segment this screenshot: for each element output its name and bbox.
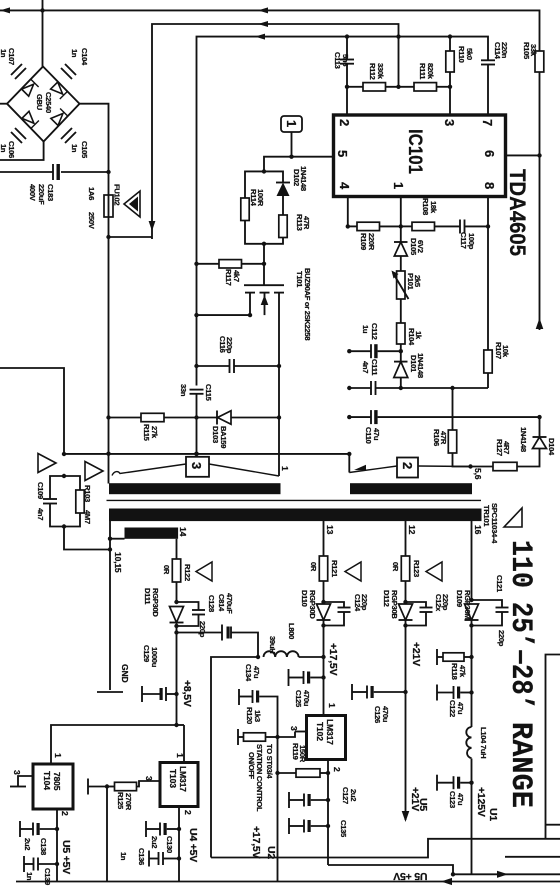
svg-text:R121: R121 [330,560,339,578]
+125V U1 label [475,787,499,821]
svg-text:L800: L800 [287,623,296,639]
svg-text:5: 5 [335,150,350,157]
svg-text:TO ST03/4: TO ST03/4 [265,744,274,779]
diode D111 RGP30D [143,588,184,696]
gate node wire down [262,244,266,285]
svg-text:C135: C135 [339,820,348,838]
capacitor C130 2u2 [146,821,179,853]
svg-text:13: 13 [325,525,335,535]
svg-text:2: 2 [60,811,70,816]
svg-text:1k3: 1k3 [253,710,262,722]
svg-text:1n: 1n [0,49,8,58]
warning triangle fuse [124,191,140,217]
capacitor C113 5n6 [333,37,354,115]
diode D102 1N4148 [264,166,308,215]
capacitor C116 220p [197,336,282,373]
warning triangle R123 [426,562,442,581]
svg-text:2: 2 [183,810,193,815]
svg-text:7805: 7805 [52,772,62,791]
svg-text:C127: C127 [341,787,350,804]
svg-text:C110: C110 [364,427,373,444]
svg-text:100R: 100R [256,189,265,207]
station control line and text [247,737,278,882]
warning triangle C109 [38,454,56,473]
svg-text:+17,5V: +17,5V [327,643,339,676]
capacitor C138 2u2 [20,821,57,855]
svg-text:470u: 470u [381,706,390,723]
transformer core bar primary left [109,483,281,494]
svg-text:C112: C112 [370,323,379,340]
svg-text:0R: 0R [391,562,400,572]
svg-text:2: 2 [332,767,342,772]
svg-text:1u: 1u [361,325,370,334]
svg-text:T101: T101 [295,271,304,288]
svg-text:47u: 47u [456,702,465,715]
bridge rectifier GR101 GBU C2540 [0,0,109,172]
svg-text:1: 1 [284,120,299,127]
svg-text:C183: C183 [46,184,55,201]
svg-text:C138: C138 [39,838,48,855]
svg-text:2u2: 2u2 [349,789,358,801]
svg-text:220p: 220p [198,621,207,638]
pin 12 wire [406,521,418,556]
svg-text:470u: 470u [302,690,311,707]
capacitor C123 47u [437,775,472,808]
svg-text:220p: 220p [360,594,369,611]
resistor R105 33k [522,42,544,330]
capacitor C109 4n7 [36,474,66,527]
resistor R106 47R [432,388,471,467]
svg-text:C117: C117 [459,232,468,249]
svg-text:2: 2 [337,119,352,126]
node junctions top [40,8,452,39]
+125V exit wire with arrow [453,871,560,878]
pin 4 wire / R109 220R [346,197,401,251]
svg-text:SPC11034-4: SPC11034-4 [490,503,499,544]
regulator T103 LM317 [137,725,199,831]
svg-text:ON/OFF: ON/OFF [247,752,256,780]
transformer core bar secondary [109,509,482,522]
svg-text:C139: C139 [43,868,52,885]
label TR101 SPC11034-4 [482,503,499,544]
svg-text:D111: D111 [143,588,152,605]
svg-text:110: 110 [503,540,537,588]
bottom bus staircase from L800 line [211,655,560,858]
big label 110 25 - 28 RANGE [503,540,537,808]
svg-text:33k: 33k [529,44,538,57]
warning triangle R122 [196,562,212,581]
capacitor C129 1000u [142,645,177,702]
diode D101 1N4148 [394,351,425,390]
svg-text:1n: 1n [0,144,8,153]
svg-text:2u2: 2u2 [23,838,32,850]
T104 output down / C139 1n [24,829,72,885]
svg-text:U5 +5V: U5 +5V [60,840,72,874]
svg-text:47u: 47u [252,666,261,679]
svg-text:LM317: LM317 [178,766,188,792]
svg-text:1n: 1n [119,852,128,861]
IC101 box [334,115,506,197]
resistor R125 270R [88,779,137,811]
svg-text:C128: C128 [207,595,216,612]
capacitor C110 47u [347,410,542,444]
bridge diode top-right [51,82,63,94]
svg-text:C113: C113 [333,52,342,69]
svg-text:1: 1 [391,182,406,189]
svg-text:IC101: IC101 [404,129,425,174]
svg-text:C105: C105 [80,141,89,159]
svg-text:C111: C111 [370,359,379,376]
resistor R104 1k [397,323,423,353]
svg-text:C814: C814 [217,594,226,612]
T102 output line down [326,773,330,865]
resistor R123 0R [391,556,421,602]
svg-text:47R: 47R [439,431,448,445]
svg-text:6V2: 6V2 [416,240,425,253]
capacitor C126 470u [352,684,406,723]
capacitor C134 47u [239,664,280,739]
svg-text:D103: D103 [211,426,220,443]
bridge diode top-left [22,84,34,96]
svg-text:14: 14 [178,527,188,537]
svg-text:47k: 47k [458,665,467,678]
transistor T101 BUZ90AF or 2SK2258 [235,268,312,476]
svg-text:+21V: +21V [410,642,422,666]
T103 output down / C136 1n [119,826,277,882]
svg-text:TDA4605: TDA4605 [505,169,530,256]
wire +8.5V feed to regulators [51,723,184,764]
svg-text:TR101: TR101 [482,505,491,527]
source wire to sense line [194,313,235,317]
bridge diode bottom-left [22,111,34,123]
svg-text:1N4148: 1N4148 [519,427,528,452]
svg-text:27k: 27k [150,426,159,439]
svg-text:16: 16 [473,525,483,535]
svg-text:L104 7uH: L104 7uH [479,727,488,758]
resistor R121 0R [309,556,339,602]
svg-text:4k7: 4k7 [232,270,241,282]
wire top rail 1 [0,7,540,51]
resistor R110 5k0 [446,37,474,115]
svg-text:0R: 0R [309,562,318,572]
svg-text:R103: R103 [83,485,92,502]
svg-text:C129: C129 [142,645,151,662]
svg-text:220n: 220n [500,42,509,59]
resistor R115 27k [109,413,197,441]
svg-text:220p: 220p [225,337,234,354]
capacitor C127 2u2 [289,787,358,808]
capacitor C128 220p [177,595,217,638]
resistor R113 47R [262,214,311,246]
bottom bus U5 +5V [16,870,560,885]
resistor R117 4k7 [194,260,264,286]
capacitor C112 1u [347,323,401,358]
svg-text:47u: 47u [372,428,381,441]
svg-text:C130: C130 [165,836,174,853]
capacitor C122 47u [437,685,472,718]
svg-text:RGP30D: RGP30D [308,590,317,619]
svg-text:8: 8 [482,182,497,189]
zener D105 6V2 [394,226,425,271]
svg-text:R117: R117 [224,269,233,286]
svg-text:C121: C121 [495,575,504,593]
svg-text:1N4148: 1N4148 [416,353,425,378]
resistor R120 1k3 [238,707,278,745]
svg-text:400V: 400V [28,184,37,202]
svg-text:D104: D104 [547,438,556,456]
inductor L800 39uH [211,623,326,858]
svg-text:220R: 220R [367,233,376,251]
svg-text:4n7: 4n7 [36,508,45,520]
svg-text:1: 1 [280,466,290,471]
svg-text:10,15: 10,15 [113,552,123,573]
svg-text:D112: D112 [382,590,391,607]
svg-text:47u: 47u [456,793,465,806]
svg-text:BUZ90AF or 2SK2258: BUZ90AF or 2SK2258 [303,268,312,340]
svg-text:U5 +5V: U5 +5V [393,870,427,882]
diode D104 1N4148 [519,417,556,456]
fuse FU102 1A6 250V [87,172,152,239]
svg-text:C136: C136 [137,848,146,865]
svg-text:U1: U1 [487,808,499,821]
+8.5V rail [177,680,194,725]
svg-text:47R: 47R [302,216,311,230]
svg-text:+125V: +125V [475,787,487,817]
pin 6 wire [506,153,542,157]
svg-text:GND: GND [120,664,130,683]
svg-text:0R: 0R [162,565,171,575]
svg-text:+17,5V: +17,5V [250,826,262,859]
svg-text:D110: D110 [300,590,309,607]
svg-text:150R: 150R [298,745,307,763]
svg-text:250V: 250V [87,212,96,230]
inductor L104 7uH [466,727,488,874]
sense line x197 with C115 [179,264,213,457]
svg-text:C134: C134 [244,664,253,682]
wire horizontal y454 [64,452,351,456]
diode D109 RGP30M [455,590,479,628]
warning triangle R103 [85,462,103,481]
capacitor C105 1n [61,128,89,159]
svg-text:1: 1 [53,753,63,758]
resistor R114 100R [241,171,265,243]
svg-text:18k: 18k [429,201,438,214]
svg-text:R110: R110 [457,46,466,63]
diode D112 RGP30B [382,590,413,820]
capacitor C135 [289,818,348,838]
svg-text:R118: R118 [450,663,459,680]
pin 16 wire [472,521,484,600]
pin 13 wire [324,521,336,556]
svg-text:T104: T104 [42,771,52,790]
capacitor C114 220n [481,42,509,115]
svg-text:4n7: 4n7 [361,361,370,373]
svg-text:U4 +5V: U4 +5V [187,828,199,862]
svg-text:D109: D109 [455,590,464,607]
svg-text:3: 3 [289,726,299,731]
resistor R119 150R [275,743,328,777]
svg-text:6: 6 [482,150,497,157]
transformer core separator line [107,499,482,501]
svg-text:T103: T103 [168,769,178,788]
wire D101 bottom to R107/R106 [401,386,488,390]
svg-text:28’: 28’ [503,664,537,710]
capacitor C107 1n [0,48,26,79]
svg-text:1: 1 [175,753,185,758]
svg-text:270R: 270R [124,793,133,811]
svg-text:R125: R125 [116,792,125,810]
svg-text:C123: C123 [448,791,457,808]
regulator T102 LM317 [278,701,346,775]
svg-text:+8,5V: +8,5V [181,680,193,707]
svg-text:25’: 25’ [503,602,537,648]
capacitor C117 100p [459,220,490,250]
svg-text:RANGE: RANGE [503,722,537,808]
wire left feed y368 [0,368,66,456]
resistor R107 10k [484,342,510,388]
svg-text:5,6: 5,6 [473,468,483,480]
T102 out to right edge [328,865,455,877]
resistor R112 330k [345,63,386,91]
+17,5V rail [321,643,339,701]
capacitor C121 220p [472,575,509,647]
diode D110 RGP30D [300,590,331,657]
bridge diode bottom-right [51,114,63,126]
svg-text:4M7: 4M7 [83,510,92,524]
capacitor C12x 220p [406,594,451,626]
capacitor C124 220p [324,594,370,626]
svg-text:R108: R108 [421,198,430,215]
svg-text:RGP30D: RGP30D [151,588,160,617]
svg-text:C126: C126 [373,706,382,723]
svg-text:4R7: 4R7 [502,441,511,454]
svg-text:1000u: 1000u [150,647,159,668]
transformer secondary winding 14-10,15 [108,527,188,559]
transformer winding 2 (5,6) [349,454,483,480]
main HV rail down left [106,237,110,484]
capacitor C814 470uF [177,593,259,657]
svg-text:C115: C115 [204,384,213,402]
resistor R118 47k [437,649,472,680]
potentiometer P101 2k5 [392,271,423,324]
svg-text:100p: 100p [467,233,476,250]
svg-text:C104: C104 [80,48,89,66]
+125V rail [469,620,473,727]
svg-text:R112: R112 [368,63,377,80]
svg-text:1n: 1n [25,872,34,881]
svg-text:R122: R122 [183,564,192,581]
svg-text:820k: 820k [426,63,435,80]
svg-text:C2540: C2540 [44,92,53,113]
svg-text:BA159: BA159 [219,426,228,448]
svg-text:LM317: LM317 [325,719,335,745]
svg-text:RGP30B: RGP30B [390,590,399,619]
svg-text:5k0: 5k0 [465,48,474,60]
svg-text:R115: R115 [142,424,151,442]
svg-text:1n: 1n [70,144,79,153]
svg-text:39uH: 39uH [268,636,277,653]
svg-text:R123: R123 [412,560,421,577]
line 10,15 to GND [97,521,130,692]
svg-text:R109: R109 [359,233,368,250]
wire top rail 3 [197,34,489,264]
svg-text:T102: T102 [315,722,325,741]
svg-text:C109: C109 [36,482,45,499]
wire R103 bottom to 10,15 line [64,527,112,552]
svg-text:3: 3 [12,770,22,775]
svg-text:GBU: GBU [35,94,44,111]
svg-text:1N4148: 1N4148 [299,166,308,191]
svg-text:3: 3 [144,776,154,781]
svg-text:1n: 1n [70,49,79,58]
svg-text:RGP30M: RGP30M [463,590,472,619]
warning triangle R121 [345,562,361,581]
pin 1 wire [399,197,403,229]
capacitor C125 470u [289,669,324,708]
svg-text:10k: 10k [501,345,510,358]
transformer core bar primary right [350,483,472,494]
svg-text:3: 3 [189,462,204,469]
svg-text:STATION CONTROL: STATION CONTROL [255,744,264,812]
svg-text:3: 3 [442,119,457,126]
svg-text:7: 7 [480,119,495,126]
resistor R127 4R7 [468,439,539,471]
capacitor C111 4n7 [347,359,401,395]
svg-text:12: 12 [407,525,417,535]
regulator T104 7805 [10,753,73,831]
svg-text:5n6: 5n6 [341,54,350,66]
transformer TR101 primary winding 1-7 [112,457,290,477]
pin 5 wire [262,155,334,174]
svg-text:220p: 220p [441,594,450,611]
resistor R108 18k [401,198,460,231]
svg-text:1: 1 [327,703,337,708]
capacitor C183 220uF 400V [0,164,111,205]
resistor R103 4M7 [62,476,92,529]
diode D103 BA159 [197,411,282,449]
capacitor C104 1n [61,48,89,79]
resistor R111 820k [386,37,451,91]
svg-text:+21V: +21V [409,787,421,811]
svg-text:1k: 1k [414,331,423,340]
resistor R122 0R [162,559,192,602]
wire top rail 2 [149,21,399,239]
warning triangle TR101 [504,508,522,527]
svg-text:33n: 33n [179,384,188,397]
svg-text:FU102: FU102 [113,184,122,205]
pin 8 wire down to R107 [487,197,489,350]
svg-text:330k: 330k [376,63,385,80]
+21V rail with arrow [402,642,429,822]
node box 1 [281,116,302,157]
svg-text:C122: C122 [448,700,457,717]
svg-text:4: 4 [337,182,352,190]
svg-text:2k5: 2k5 [413,275,422,288]
svg-text:R111: R111 [418,63,427,80]
svg-text:2u2: 2u2 [150,836,159,848]
svg-text:1A6: 1A6 [87,187,96,200]
svg-text:R120: R120 [245,707,254,724]
svg-text:470uF: 470uF [225,593,234,614]
svg-text:C125: C125 [294,690,303,708]
R125 node line down [106,787,108,882]
capacitor C106 1n [0,128,26,158]
svg-text:2: 2 [400,462,415,469]
svg-text:220uF: 220uF [37,184,46,205]
